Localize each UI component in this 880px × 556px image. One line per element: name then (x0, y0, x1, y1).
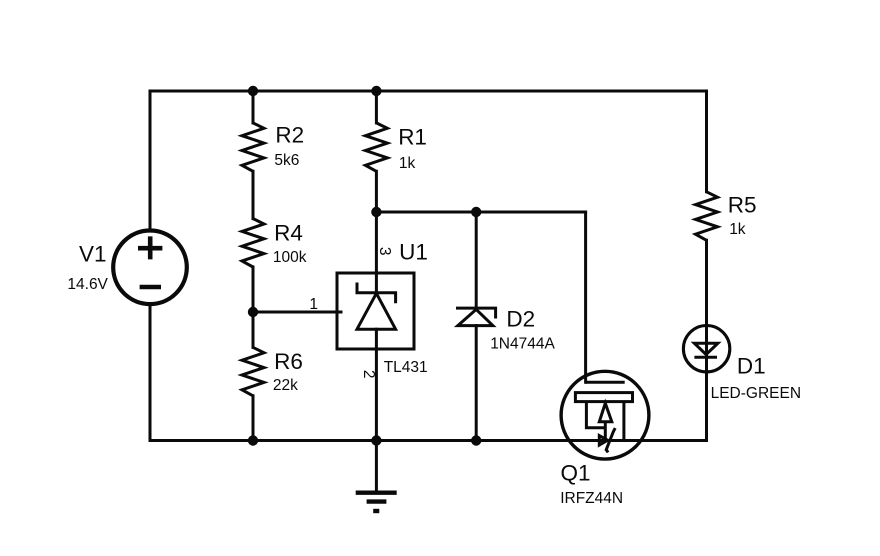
node dot top R1 (371, 86, 381, 96)
node dot R6 bottom (248, 435, 258, 445)
svg-text:R5: R5 (728, 192, 757, 217)
svg-text:D1: D1 (737, 353, 766, 378)
resistor R6 (242, 347, 264, 395)
svg-text:V1: V1 (79, 242, 107, 267)
svg-text:D2: D2 (506, 306, 535, 331)
svg-text:R2: R2 (275, 123, 304, 148)
transistor Q1 (IRFZ44N MOSFET) (561, 371, 649, 459)
node dot D2 bottom (471, 435, 481, 445)
node dot top R2 (248, 86, 258, 96)
wire bottom rail (150, 439, 707, 442)
svg-text:2: 2 (360, 370, 377, 379)
wire node to R6 (252, 312, 255, 347)
svg-text:TL431: TL431 (384, 359, 428, 376)
wire R6 bottom lead (252, 396, 255, 441)
node dot ground (371, 435, 381, 445)
svg-text:U1: U1 (399, 240, 428, 265)
svg-text:R1: R1 (398, 125, 427, 150)
node dot D2 top (471, 207, 481, 217)
wire left rail lower (149, 306, 152, 441)
resistor R2 (242, 123, 264, 171)
battery V1 (113, 230, 187, 304)
svg-text:IRFZ44N: IRFZ44N (560, 490, 623, 507)
wire left rail upper (149, 91, 152, 229)
wire gate drop (584, 212, 587, 382)
svg-text:5k6: 5k6 (274, 152, 299, 169)
LED D1 (683, 326, 729, 372)
svg-text:22k: 22k (273, 377, 298, 394)
svg-text:3: 3 (376, 247, 393, 256)
wire R1 to node (375, 171, 378, 212)
svg-text:1k: 1k (729, 221, 746, 238)
op-amp U1 (TL431 shunt regulator) (337, 273, 414, 349)
svg-text:14.6V: 14.6V (67, 276, 108, 293)
svg-text:LED-GREEN: LED-GREEN (711, 385, 801, 402)
svg-text:100k: 100k (273, 249, 307, 266)
svg-text:1k: 1k (399, 155, 416, 172)
svg-text:1N4744A: 1N4744A (490, 335, 555, 352)
wire U1 cathode stem (375, 212, 378, 293)
resistor R1 (365, 123, 387, 171)
wire D2 top lead (475, 212, 478, 308)
wire R5 to D1 (705, 240, 708, 440)
wire R4 to node (252, 267, 255, 312)
svg-text:R4: R4 (274, 221, 303, 246)
wire pin 1 into U1 (253, 311, 341, 314)
resistor R4 (242, 219, 264, 267)
node dot divider (248, 307, 258, 317)
diode D2 (zener 1N4744A) (456, 308, 496, 326)
wire D2 bottom lead (475, 326, 478, 441)
node dot R1/U1 (371, 207, 381, 217)
wire top rail (150, 90, 707, 93)
wire R1 top lead (375, 91, 378, 123)
ground (356, 441, 397, 512)
wire U1 anode to ground rail (375, 329, 378, 440)
resistor R5 (696, 192, 718, 241)
wire node horizontal to gate (376, 211, 585, 214)
svg-text:R6: R6 (274, 349, 303, 374)
svg-text:Q1: Q1 (561, 461, 591, 486)
svg-text:1: 1 (309, 296, 318, 313)
wire right rail upper (705, 91, 708, 192)
wire R2 to R4 (252, 171, 255, 218)
wire R2 top lead (252, 91, 255, 123)
